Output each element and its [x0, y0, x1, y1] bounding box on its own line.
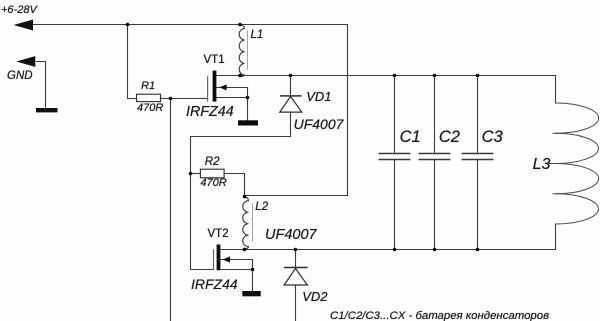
label VT1: [204, 55, 225, 67]
node R2 left / VT2 gate net: [189, 172, 193, 176]
wire VD1 anode to VT2 gate net: [191, 112, 291, 269]
wire bottom rail (VT2 drain to C bottoms and L3): [220, 249, 555, 251]
label 470R of R1: [137, 103, 163, 114]
wire node R1-right down to bottom edge: [170, 99, 172, 321]
wire R1 right lead to VT1 gate: [161, 98, 208, 100]
label +6-28V: [1, 5, 37, 16]
label GND: [7, 71, 33, 83]
capacitor C3 plates: [462, 154, 494, 160]
ground symbol (input): [36, 108, 58, 112]
wire L3 top stub: [555, 76, 557, 104]
node C3 top: [476, 74, 480, 78]
label UF4007 of VD2: [265, 228, 317, 243]
wire VD1 cathode stub: [290, 76, 292, 96]
transistor VT1 (gate line): [207, 76, 209, 101]
label UF4007 of VD1: [294, 117, 344, 131]
node L2 bottom / bottom rail: [243, 248, 247, 252]
label IRFZ44 of VT1: [186, 105, 234, 119]
inductor L1 coil: [239, 25, 244, 77]
transistor VT1 (channel bar): [213, 71, 217, 102]
wire VT2 source bottom lead: [220, 269, 252, 271]
transistor VT2 (gate line): [213, 249, 215, 269]
label IRFZ44 of VT2: [191, 277, 238, 291]
wire +V branch to R1: [128, 25, 137, 99]
node VT2 source junction: [251, 268, 255, 272]
terminal arrow +6-28V: [14, 20, 33, 31]
transistor VT1 (source arrow): [219, 84, 226, 90]
resistor R2: [200, 169, 224, 178]
transistor VT2 (source arrow): [223, 256, 230, 262]
node L1 bottom / drain rail: [238, 74, 242, 78]
node C2 top: [433, 74, 437, 78]
wire VT2 source arrow lead: [220, 259, 252, 261]
wire +V rail down feed to L2: [245, 25, 348, 196]
inductor L3 work coil: [549, 103, 599, 224]
label VD2: [302, 290, 327, 303]
capacitor C2 bottom lead: [434, 160, 436, 249]
inductor L2 coil: [243, 197, 249, 250]
wire VT1 source down to ground: [247, 88, 249, 121]
label L2: [255, 202, 268, 214]
label VD1: [306, 90, 331, 103]
label L1: [251, 30, 264, 42]
wire VT1 source arrow lead: [216, 87, 247, 89]
resistor R1: [137, 94, 161, 101]
node VD1 cathode / drain rail: [289, 74, 293, 78]
ground symbol VT1 source: [238, 120, 258, 125]
node R1 right / VT1 gate: [169, 97, 173, 101]
label L3: [533, 157, 551, 173]
node L2 top: [243, 195, 247, 199]
node C1 bottom: [393, 248, 397, 252]
capacitor C3 bottom lead: [477, 160, 479, 249]
inductor L1 core line: [247, 31, 249, 70]
label R1: [141, 81, 155, 92]
label 470R of R2: [200, 178, 226, 189]
capacitor C1 bottom lead: [394, 160, 396, 249]
wire L3 bottom stub: [555, 224, 557, 250]
caption capacitor bank note: [330, 311, 549, 321]
wire top +V rail: [33, 24, 348, 26]
capacitor C1 top lead: [394, 76, 396, 153]
capacitor C3 top lead: [477, 76, 479, 153]
label C2: [439, 129, 460, 146]
transistor VT2 (channel bar): [217, 245, 221, 271]
terminal arrow GND: [16, 56, 35, 67]
node VT1 source junction: [246, 96, 250, 100]
inductor L2 core line: [252, 204, 254, 242]
capacitor C1 plates: [379, 154, 411, 160]
wire VD2 cathode stub: [295, 250, 297, 267]
wire VT1 source bottom lead: [216, 97, 247, 99]
ground symbol VT2 source: [242, 291, 260, 296]
node VD2 cathode / bottom rail: [294, 248, 298, 252]
diode VD2: [284, 268, 308, 286]
wire drain rail of VT1 (to C1,C2,C3,L3 top): [216, 75, 555, 77]
label C3: [482, 129, 503, 146]
label R2: [205, 157, 220, 169]
capacitor C2 plates: [419, 154, 451, 160]
label C1: [400, 129, 421, 146]
capacitor C2 top lead: [434, 76, 436, 153]
node +V/R1 branch: [126, 23, 130, 27]
node C3 bottom: [476, 248, 480, 252]
wire R2 right lead down to L2 top node: [224, 174, 244, 197]
label VT2: [208, 229, 229, 241]
diode VD1: [280, 96, 302, 112]
wire R2 left lead: [191, 173, 201, 175]
wire GND terminal lead: [37, 62, 46, 109]
node C2 bottom: [433, 248, 437, 252]
node +V/L1 top: [238, 23, 242, 27]
wire VT2 source down to ground: [252, 260, 254, 292]
wire VD2 anode down to bottom edge: [295, 285, 297, 321]
node C1 top: [393, 74, 397, 78]
